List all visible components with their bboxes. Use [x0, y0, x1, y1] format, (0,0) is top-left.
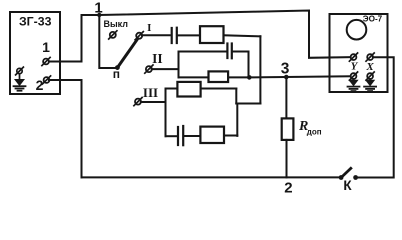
branch III loop bottom wire — [166, 135, 177, 137]
junction dot branch II output — [247, 75, 252, 80]
branch III loop right side upper — [235, 89, 237, 104]
terminal 2 of ЗГ-33 — [42, 76, 50, 84]
oscilloscope X ground terminal — [366, 72, 374, 80]
wire R1 to right drop — [224, 35, 261, 36]
switch К lever — [342, 168, 351, 177]
svg-text:II: II — [152, 51, 163, 66]
oscilloscope box ЭО-7 — [330, 14, 388, 92]
wire contact III to parallel group — [141, 101, 166, 103]
branch II loop right side — [248, 52, 250, 78]
switch arm (rotary selector) — [117, 39, 137, 67]
svg-text:1: 1 — [94, 0, 102, 16]
node 3 — [284, 75, 289, 80]
ground (chassis of ЗГ-33) — [14, 67, 26, 91]
wire Rдоп to bottom rail node 2 — [286, 140, 288, 178]
contact Выкл — [109, 31, 117, 39]
wire contact I to C1 — [142, 34, 170, 36]
wire node 3 down to Rдоп — [285, 77, 287, 118]
branch III loop top wire — [166, 88, 178, 90]
branch III loop left side — [165, 89, 167, 137]
wire branch I down to branch III tap — [259, 36, 261, 103]
oscilloscope X input terminal — [366, 53, 374, 61]
wire terminal2 down to bottom rail — [49, 80, 82, 177]
wire from node 1 down to pole п — [99, 15, 115, 68]
wire R3 to loop right side — [201, 88, 237, 90]
svg-text:1: 1 — [42, 39, 50, 55]
resistor R1 — [200, 26, 224, 43]
node 1 — [97, 13, 101, 17]
branch II parallel loop left side — [178, 52, 180, 78]
branch III loop right side lower — [236, 104, 238, 136]
switch К left dot — [339, 175, 344, 180]
wire R4 to loop corner — [224, 135, 237, 137]
switch К right dot — [353, 175, 358, 180]
resistor Rдоп — [282, 118, 294, 139]
bottom rail wire to switch К — [82, 176, 340, 178]
wire C1 to R1 — [178, 34, 200, 36]
svg-text:I: I — [147, 22, 151, 34]
svg-text:К: К — [343, 178, 352, 193]
contact I — [135, 32, 143, 40]
resistor R4 — [200, 127, 224, 143]
svg-text:2: 2 — [36, 77, 44, 93]
svg-text:доп: доп — [307, 128, 322, 137]
svg-text:3: 3 — [281, 60, 290, 77]
contact III — [134, 98, 142, 106]
wire node line to oscilloscope Y ground terminal — [249, 76, 350, 77]
terminal 1 of ЗГ-33 — [42, 57, 50, 65]
CRT screen circle — [347, 20, 367, 40]
wire contact II to parallel RC — [152, 68, 179, 70]
svg-text:X: X — [365, 61, 374, 73]
node п — [115, 65, 120, 70]
oscilloscope Y input terminal — [349, 53, 357, 61]
capacitor C3 — [178, 126, 183, 145]
wire terminal1 to top rail — [49, 15, 82, 62]
wire C3 to R4 — [184, 135, 200, 137]
resistor R3 — [177, 82, 200, 97]
wire switch К up to oscilloscope X input — [358, 57, 394, 177]
svg-text:III: III — [143, 85, 158, 100]
svg-text:2: 2 — [284, 180, 292, 196]
svg-text:ЗГ-33: ЗГ-33 — [19, 14, 52, 28]
svg-text:п: п — [113, 67, 120, 81]
capacitor C1 — [172, 28, 177, 43]
oscilloscope Y ground terminal — [349, 72, 357, 80]
branch II loop bottom wire — [179, 76, 209, 78]
svg-text:Выкл: Выкл — [104, 19, 129, 29]
resistor R2 — [209, 71, 229, 82]
contact II — [145, 65, 153, 73]
svg-text:ЭО-7: ЭО-7 — [363, 14, 383, 23]
ground under X terminal — [364, 79, 376, 91]
wire top rail from node 1 to oscilloscope Y input — [82, 11, 351, 58]
wire C2 to loop right side — [233, 51, 249, 53]
capacitor C2 — [227, 44, 231, 59]
wire tap branch III to branch I drop — [236, 103, 260, 105]
wire R2 to junction — [228, 76, 249, 78]
ground under Y terminal — [348, 79, 360, 91]
branch II loop top wire — [179, 51, 227, 53]
generator box ЗГ-33 — [10, 12, 60, 94]
